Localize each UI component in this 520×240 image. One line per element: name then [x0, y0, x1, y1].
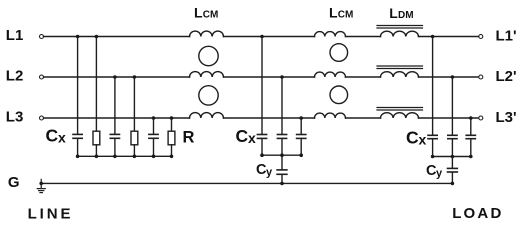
junction G/Cy1 — [280, 182, 284, 186]
wire L1 segment 4 — [419, 36, 479, 38]
coupling circle choke2 lower — [330, 86, 348, 104]
junction L3/R3 — [170, 116, 174, 120]
junction star2/Cx4 — [260, 153, 264, 157]
wire L2 segment 3 — [346, 76, 381, 78]
svg-text:CM: CM — [338, 10, 354, 21]
junction star2/Cx5 — [280, 153, 284, 157]
junction G/Cy2 — [451, 182, 455, 186]
svg-text:L: L — [329, 5, 338, 21]
wire star bus middle — [262, 154, 301, 156]
resistor R2 (L2 to star) — [133, 77, 135, 131]
capacitor Cx3 (L3 to star) — [153, 118, 155, 134]
svg-text:L3': L3' — [496, 109, 517, 126]
wire L3 segment 3 — [346, 117, 381, 119]
svg-text:L2: L2 — [6, 67, 24, 84]
capacitor Cx5 (L2 to star2) — [281, 77, 283, 134]
svg-text:y: y — [436, 168, 443, 180]
svg-text:G: G — [8, 174, 20, 191]
core bars LDM phase L2 — [377, 65, 423, 67]
label Cx left — [46, 125, 67, 145]
terminal L2 line side — [40, 75, 44, 79]
core bars LDM phase L1 — [377, 25, 423, 27]
junction star3/Cx9 — [469, 155, 473, 159]
junction L3/Cx6 — [299, 116, 303, 120]
wire star bus left — [78, 155, 172, 157]
label LCM choke2 — [329, 5, 353, 21]
svg-text:L3: L3 — [6, 108, 24, 125]
label Cx middle — [236, 126, 257, 146]
wire L3 segment 2 — [224, 117, 315, 119]
wire star bus right — [433, 156, 471, 158]
inductor LCM choke1 winding phase L2 — [190, 72, 224, 77]
svg-text:L1: L1 — [6, 27, 24, 44]
junction L2/Cx2 — [113, 75, 117, 79]
coupling circle choke1 upper — [199, 46, 218, 65]
svg-text:C: C — [46, 125, 59, 145]
wire L1 segment 3 — [346, 36, 381, 38]
capacitor Cx2 (L2 to star) — [114, 77, 116, 134]
svg-text:R: R — [183, 129, 195, 147]
svg-text:L1': L1' — [496, 28, 517, 45]
svg-text:y: y — [266, 167, 273, 179]
svg-text:CM: CM — [203, 10, 219, 21]
capacitor Cx6 (L3 to star2) — [300, 118, 302, 134]
capacitor Cx4 (L1 to star2) — [261, 37, 263, 135]
capacitor Cy2 (star3 to ground) — [451, 157, 453, 168]
junction L2'/Cx8 — [451, 75, 455, 79]
svg-text:C: C — [406, 128, 419, 148]
junction L1/Cx4 — [260, 35, 264, 39]
junction L2/Cx5 — [280, 75, 284, 79]
junction star2/Cx6 — [299, 153, 303, 157]
capacitor Cx7 (L1' to star3) — [432, 37, 434, 135]
svg-text:LINE: LINE — [28, 205, 74, 222]
terminal L3' load side — [479, 116, 483, 120]
junction star1/Cx3 — [152, 155, 156, 159]
svg-text:x: x — [248, 130, 256, 146]
wire L1 segment 2 — [224, 36, 315, 38]
inductor LCM choke2 winding phase L2 — [315, 72, 346, 77]
junction L1'/Cx7 — [431, 35, 435, 39]
inductor LDM winding phase L1 — [381, 31, 419, 36]
svg-text:L: L — [389, 5, 398, 21]
inductor LCM choke2 winding phase L3 — [315, 113, 346, 118]
junction L2/R2 — [133, 75, 137, 79]
junction star3/Cx8 — [451, 155, 455, 159]
svg-text:L: L — [194, 4, 203, 20]
terminal L1' load side — [479, 35, 483, 39]
label Cy middle — [256, 162, 273, 179]
capacitor Cy1 (star2 to ground) — [281, 155, 283, 169]
junction L1/R1 — [95, 35, 99, 39]
inductor LDM winding phase L3 — [381, 113, 419, 118]
core bars LDM phase L3 — [377, 107, 423, 109]
ground symbol — [40, 179, 42, 187]
capacitor Cx8 (L2' to star3) — [451, 77, 453, 135]
inductor LDM winding phase L2 — [381, 72, 419, 77]
wire L2 segment 1 — [44, 76, 190, 78]
junction L3'/Cx9 — [469, 116, 473, 120]
svg-text:LOAD: LOAD — [452, 205, 503, 222]
wire L2 segment 4 — [419, 76, 479, 78]
junction L3/Cx3 — [152, 116, 156, 120]
junction star1/R3 — [170, 155, 174, 159]
junction G/ground — [39, 182, 43, 186]
junction L1/Cx1 — [76, 35, 80, 39]
terminal L2' load side — [479, 75, 483, 79]
coupling circle choke1 lower — [199, 86, 218, 105]
inductor LCM choke1 winding phase L3 — [190, 113, 224, 118]
svg-text:x: x — [419, 132, 427, 148]
label Cy right — [426, 163, 443, 180]
svg-text:x: x — [58, 130, 66, 146]
junction star1/Cx2 — [113, 155, 117, 159]
junction star1/R1 — [95, 155, 99, 159]
svg-text:DM: DM — [398, 10, 414, 21]
capacitor Cx1 (L1 to star) — [77, 37, 79, 134]
svg-text:C: C — [236, 126, 249, 146]
label LDM — [389, 5, 413, 21]
resistor R1 (L1 to star) — [95, 37, 97, 132]
resistor R3 (L3 to star) — [171, 118, 173, 131]
junction star1/Cx1 — [76, 155, 80, 159]
svg-text:L2': L2' — [496, 68, 517, 85]
wire L1 segment 1 — [44, 36, 190, 38]
capacitor Cx9 (L3' to star3) — [470, 118, 472, 135]
terminal L3 line side — [40, 116, 44, 120]
label Cx right — [406, 128, 427, 148]
junction star3/Cx7 — [431, 155, 435, 159]
wire L3 segment 4 — [419, 117, 479, 119]
coupling circle choke2 upper — [330, 44, 348, 62]
inductor LCM choke1 winding phase L1 — [190, 31, 224, 36]
inductor LCM choke2 winding phase L1 — [315, 32, 346, 37]
terminal L1 line side — [40, 35, 44, 39]
wire ground bus G — [41, 182, 452, 184]
junction star1/R2 — [133, 155, 137, 159]
wire L3 segment 1 — [44, 117, 190, 119]
wire L2 segment 2 — [224, 76, 315, 78]
label LCM choke1 — [194, 4, 218, 20]
